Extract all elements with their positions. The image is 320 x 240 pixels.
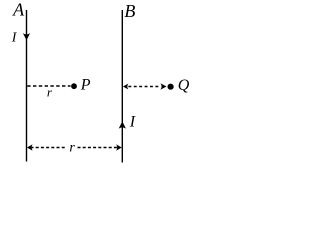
dashed double arrow between wire A and wire B (distance r), left segment	[31, 147, 66, 149]
arrowhead at wire A (pointing left)	[27, 144, 33, 150]
svg-text:A: A	[12, 0, 25, 20]
point Q dot	[168, 84, 174, 90]
wire A	[26, 10, 28, 162]
svg-text:I: I	[129, 113, 136, 130]
svg-text:Q: Q	[178, 77, 190, 94]
svg-text:I: I	[11, 30, 18, 45]
svg-text:r: r	[69, 141, 75, 156]
dashed line from wire A to point P	[27, 85, 70, 87]
dashed double arrow from wire B to point Q	[128, 86, 160, 88]
dashed double arrow right segment	[78, 147, 118, 149]
arrowhead at wire B (pointing left)	[123, 84, 128, 90]
wire B	[121, 10, 123, 163]
current arrow I on wire B (upward)	[119, 121, 126, 128]
svg-text:B: B	[124, 1, 135, 21]
arrowhead at Q (pointing right)	[160, 83, 166, 90]
arrowhead at wire B (pointing right)	[116, 144, 122, 150]
svg-text:P: P	[80, 76, 91, 93]
current arrow I on wire A (downward)	[23, 33, 30, 40]
point P dot	[71, 83, 77, 89]
